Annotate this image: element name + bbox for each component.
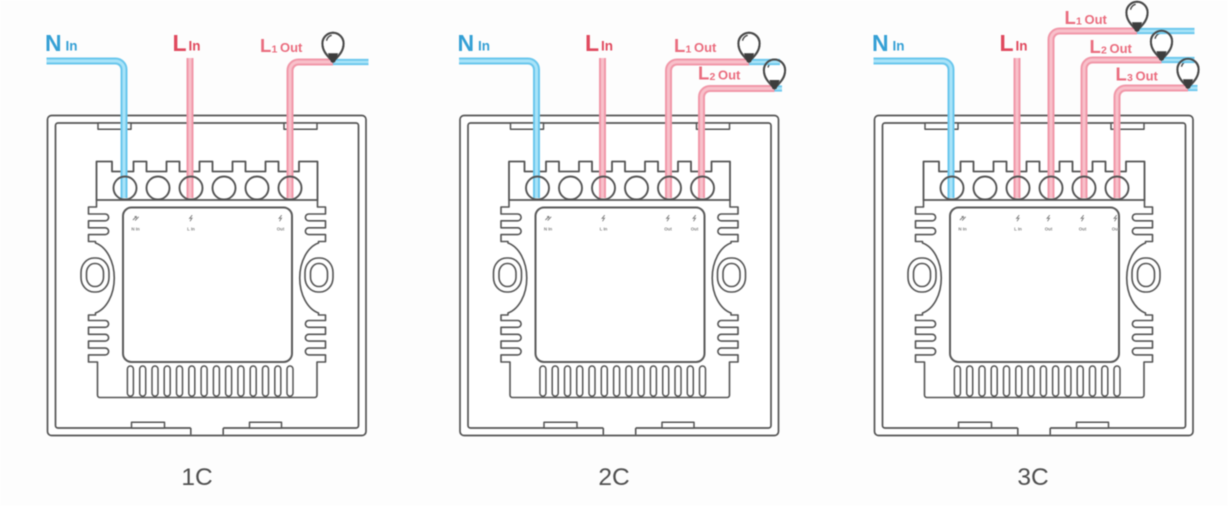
svg-text:N In: N In xyxy=(544,227,553,232)
wire neutral return to lamp (1C) xyxy=(333,59,369,65)
wire N in (3C) xyxy=(874,61,952,198)
lamp L1 base (3C) xyxy=(1133,23,1142,31)
switch module 2C xyxy=(460,116,779,436)
lamp L1 (3C) xyxy=(1126,2,1147,31)
svg-text:Out: Out xyxy=(694,40,717,55)
lamp L1 base (2C) xyxy=(745,54,754,62)
terminal screws 2C xyxy=(526,177,714,200)
svg-text:2: 2 xyxy=(1101,45,1107,57)
lamp L2 outline (3C) xyxy=(1151,31,1172,60)
svg-text:1: 1 xyxy=(272,44,278,56)
svg-text:N In: N In xyxy=(958,227,967,232)
label "L3 Out" (3C) xyxy=(1116,64,1159,85)
svg-text:Out: Out xyxy=(1085,12,1108,27)
label "L2 Out" (3C) xyxy=(1090,36,1133,57)
terminal marks 1C xyxy=(131,215,284,231)
lamp L3 (3C) xyxy=(1177,59,1198,88)
lamp L2 (2C) xyxy=(764,59,785,88)
svg-text:Out: Out xyxy=(664,227,672,232)
neutral return lamp2 (2C) xyxy=(775,85,783,91)
label "L2 Out" (2C) xyxy=(698,63,741,84)
lamp L1 outline (2C) xyxy=(738,33,759,62)
lamp L2 base (2C) xyxy=(770,81,779,89)
wire L1 out (2C) xyxy=(669,62,750,198)
switch module 1C xyxy=(48,116,367,436)
terminal screws 3C xyxy=(941,177,1129,200)
svg-text:3: 3 xyxy=(1127,72,1133,84)
neutral return lamp3 (3C) xyxy=(1188,85,1198,91)
svg-text:Out: Out xyxy=(718,68,741,83)
lamp L1 outline (3C) xyxy=(1126,2,1147,31)
svg-text:L: L xyxy=(1000,30,1014,56)
svg-text:L: L xyxy=(585,30,599,56)
svg-text:3C: 3C xyxy=(1017,464,1048,491)
wire L in (3C) xyxy=(1014,58,1021,198)
svg-text:1: 1 xyxy=(1076,16,1082,28)
svg-text:2: 2 xyxy=(710,71,716,83)
svg-text:Out: Out xyxy=(691,227,699,232)
svg-text:N In: N In xyxy=(131,227,140,232)
wire L1 out (3C) xyxy=(1051,31,1137,198)
wire N in (1C) xyxy=(47,61,125,198)
svg-text:Out: Out xyxy=(1045,227,1053,232)
svg-text:L: L xyxy=(1090,36,1101,57)
lamp L2 outline (2C) xyxy=(764,59,785,88)
wire L2 out (3C) xyxy=(1084,60,1162,198)
svg-text:L In: L In xyxy=(1014,227,1022,232)
svg-text:Out: Out xyxy=(1110,41,1133,56)
svg-text:In: In xyxy=(478,39,490,54)
lamp L3 outline (3C) xyxy=(1177,59,1198,88)
lamp L2 (3C) xyxy=(1151,31,1172,60)
svg-text:Out: Out xyxy=(1112,227,1120,232)
svg-text:N: N xyxy=(872,30,889,56)
svg-text:In: In xyxy=(189,39,201,54)
svg-text:L In: L In xyxy=(187,227,195,232)
terminal marks 3C xyxy=(958,215,1119,231)
svg-text:In: In xyxy=(66,39,78,54)
svg-text:Out: Out xyxy=(280,40,303,55)
terminal screws 1C xyxy=(114,177,302,200)
svg-text:Out: Out xyxy=(277,227,285,232)
svg-text:L: L xyxy=(1116,64,1127,85)
lamp L1 outline (1C) xyxy=(322,33,343,62)
wire L3 out (3C) xyxy=(1117,88,1188,198)
terminal marks 2C xyxy=(544,215,699,231)
lamp L1 (1C) xyxy=(322,33,343,62)
svg-text:N: N xyxy=(45,30,62,56)
svg-text:L: L xyxy=(674,35,685,56)
label "L1 Out" (2C) xyxy=(674,35,717,56)
svg-text:L: L xyxy=(698,63,709,84)
wire N in (2C) xyxy=(459,61,537,198)
neutral return lamp1 (2C) xyxy=(749,59,780,65)
svg-text:N: N xyxy=(458,30,475,56)
neutral return lamp2 (3C) xyxy=(1162,57,1195,63)
svg-text:In: In xyxy=(601,39,613,54)
lamp L1 (2C) xyxy=(738,33,759,62)
svg-text:L: L xyxy=(260,35,271,56)
svg-text:L In: L In xyxy=(600,227,608,232)
svg-text:1C: 1C xyxy=(181,464,212,491)
wire L in (1C) xyxy=(187,58,194,198)
neutral return lamp1 (3C) xyxy=(1137,28,1195,34)
svg-text:1: 1 xyxy=(686,44,692,56)
svg-text:In: In xyxy=(893,39,905,54)
lamp L2 base (3C) xyxy=(1157,52,1166,60)
svg-text:L: L xyxy=(173,30,187,56)
lamp L1 base (1C) xyxy=(329,54,338,62)
wire L in (2C) xyxy=(599,58,606,198)
svg-text:In: In xyxy=(1016,39,1028,54)
switch module 3C xyxy=(875,116,1194,436)
svg-text:Out: Out xyxy=(1079,227,1087,232)
svg-text:Out: Out xyxy=(1136,69,1159,84)
wire L2 out (2C) xyxy=(702,89,775,199)
lamp L3 base (3C) xyxy=(1184,80,1193,88)
label "L1 Out" (3C) xyxy=(1065,7,1108,28)
wire L1 out (1C) xyxy=(290,62,333,198)
svg-text:2C: 2C xyxy=(598,464,629,491)
label "L1 Out" (1C) xyxy=(260,35,303,56)
svg-text:L: L xyxy=(1065,7,1076,28)
